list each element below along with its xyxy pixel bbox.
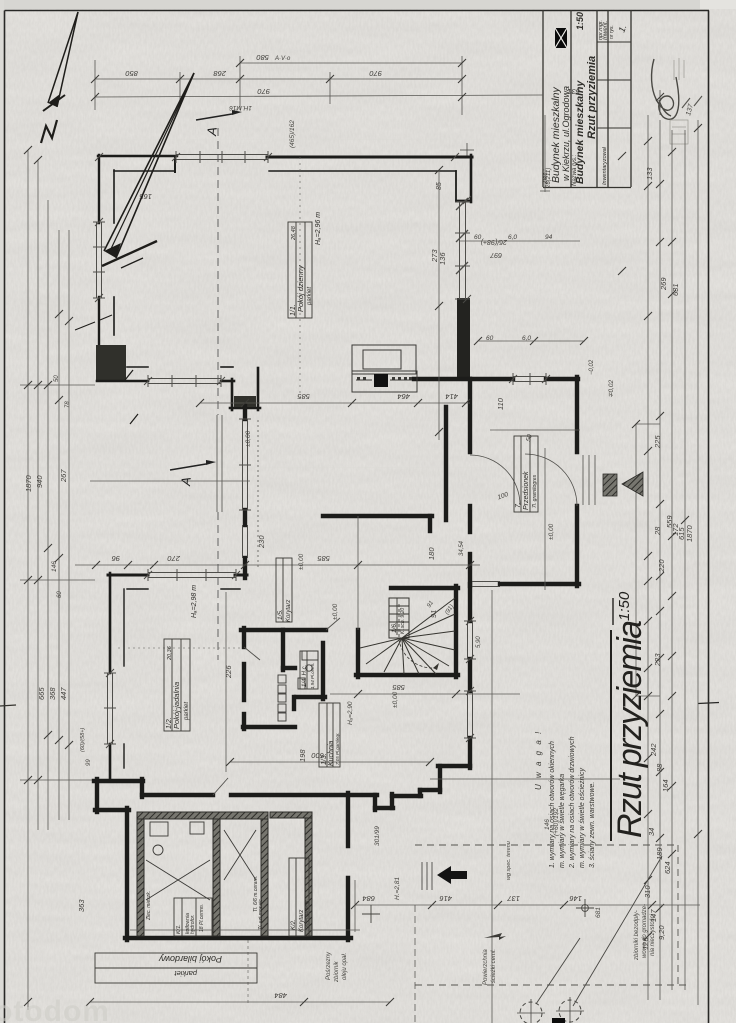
svg-text:310: 310: [643, 885, 652, 898]
svg-text:zbiorniki bezodpły-: zbiorniki bezodpły-: [634, 910, 640, 961]
svg-text:Korytarz: Korytarz: [286, 600, 292, 622]
svg-text:146: 146: [51, 561, 58, 572]
svg-text:585: 585: [317, 554, 330, 563]
svg-text:oleju opał.: oleju opał.: [342, 953, 348, 980]
svg-text:60: 60: [474, 234, 482, 241]
svg-text:180: 180: [427, 547, 436, 560]
svg-text:368: 368: [48, 687, 57, 700]
svg-text:ścieżki ceml.: ścieżki ceml.: [491, 949, 497, 983]
svg-text:684: 684: [362, 894, 375, 903]
svg-text:5,90: 5,90: [476, 636, 482, 648]
svg-text:Kuchnia: Kuchnia: [328, 741, 335, 766]
svg-text:Tl. 6/6 m.ceram.: Tl. 6/6 m.ceram.: [253, 876, 259, 912]
svg-text:U w a g a !: U w a g a !: [534, 730, 543, 790]
svg-text:wg spec. terenu: wg spec. terenu: [506, 841, 512, 880]
svg-text:−0,02: −0,02: [589, 359, 595, 375]
svg-text:580: 580: [256, 53, 269, 62]
svg-text:Pośrzezny: Pośrzezny: [326, 951, 332, 980]
svg-text:±0,00: ±0,00: [298, 553, 305, 570]
svg-text:1/5.: 1/5.: [277, 609, 284, 620]
svg-text:parkiet: parkiet: [174, 969, 198, 978]
svg-text:A·V·o: A·V·o: [274, 56, 291, 62]
svg-text:96: 96: [111, 554, 120, 563]
svg-text:18 Pl.cermn.: 18 Pl.cermn.: [199, 904, 205, 932]
svg-text:94: 94: [545, 234, 553, 241]
svg-text:6,0: 6,0: [508, 234, 517, 241]
svg-text:7,05 Pl.gamlegr.: 7,05 Pl.gamlegr.: [335, 732, 340, 765]
svg-text:K/1.: K/1.: [176, 924, 182, 934]
svg-text:H.=2,81: H.=2,81: [394, 877, 401, 900]
svg-text:970: 970: [257, 87, 270, 96]
svg-text:110: 110: [496, 397, 505, 410]
svg-text:164: 164: [661, 779, 670, 792]
svg-text:Rzut przyziemia: Rzut przyziemia: [611, 620, 649, 838]
svg-text:268: 268: [213, 69, 227, 78]
svg-text:6,0: 6,0: [522, 335, 531, 342]
svg-text:Zlec. mieszk.: Zlec. mieszk.: [146, 891, 152, 921]
svg-text:137: 137: [507, 894, 520, 903]
svg-text:3. ściany zewn. warstwowe.: 3. ściany zewn. warstwowe.: [589, 782, 596, 868]
svg-text:681: 681: [595, 907, 602, 918]
svg-text:Przedsionek: Przedsionek: [523, 471, 530, 510]
svg-text:∓0,02: ∓0,02: [608, 380, 615, 398]
svg-text:230: 230: [257, 535, 266, 549]
svg-text:m. wymiary w świetle węgarka: m. wymiary w świetle węgarka: [559, 774, 566, 868]
svg-text:1:50: 1:50: [575, 12, 585, 30]
svg-text:1H.M16: 1H.M16: [229, 104, 252, 111]
svg-text:225: 225: [653, 435, 662, 449]
svg-text:270: 270: [167, 554, 181, 563]
svg-text:631: 631: [567, 87, 580, 96]
svg-text:414: 414: [445, 392, 458, 401]
svg-text:447: 447: [59, 687, 68, 700]
svg-text:nia nieczystości: nia nieczystości: [650, 913, 656, 956]
svg-text:Pokój bilardowy: Pokój bilardowy: [158, 954, 222, 964]
svg-text:198: 198: [298, 749, 307, 762]
svg-text:Hₐ=2,96 m: Hₐ=2,96 m: [315, 212, 322, 245]
svg-text:34,54: 34,54: [459, 540, 465, 556]
svg-text:(60)/(58+): (60)/(58+): [80, 728, 86, 752]
svg-text:242: 242: [649, 743, 658, 757]
svg-text:(465)/162: (465)/162: [289, 120, 296, 148]
svg-text:hydrofor.: hydrofor.: [190, 914, 196, 934]
svg-text:28: 28: [653, 526, 662, 536]
svg-text:631: 631: [671, 283, 680, 296]
svg-text:970: 970: [369, 69, 382, 78]
svg-text:697: 697: [489, 251, 502, 258]
svg-text:363: 363: [77, 899, 86, 912]
svg-text:88: 88: [655, 763, 664, 772]
svg-text:otodom: otodom: [0, 995, 110, 1023]
svg-text:1/6.: 1/6.: [391, 622, 398, 633]
svg-text:26,48: 26,48: [291, 225, 297, 241]
svg-text:±0,00: ±0,00: [332, 603, 339, 620]
svg-text:20,36: 20,36: [167, 645, 173, 661]
svg-text:1870: 1870: [24, 474, 33, 492]
svg-text:85: 85: [436, 182, 443, 190]
svg-text:A: A: [204, 126, 220, 137]
svg-text:1870: 1870: [685, 524, 694, 542]
svg-text:±0,00: ±0,00: [245, 430, 252, 447]
svg-text:464: 464: [397, 392, 410, 401]
svg-text:416: 416: [439, 894, 452, 903]
svg-text:78: 78: [65, 401, 71, 408]
svg-text:940: 940: [35, 475, 44, 488]
svg-text:26(211): 26(211): [546, 168, 552, 189]
svg-text:91: 91: [429, 610, 438, 618]
svg-text:1,94 Pl.cerm.: 1,94 Pl.cerm.: [310, 662, 315, 689]
svg-text:zbiornik: zbiornik: [334, 960, 340, 983]
svg-text:267: 267: [59, 469, 68, 483]
svg-text:Hₐ=2,90: Hₐ=2,90: [347, 701, 354, 725]
svg-text:Kl.sch. 9,20: Kl.sch. 9,20: [400, 608, 406, 634]
svg-text:269: 269: [659, 277, 668, 291]
svg-text:parkiet: parkiet: [184, 702, 190, 721]
svg-text:7.: 7.: [515, 502, 522, 508]
svg-text:1:50: 1:50: [616, 591, 633, 621]
svg-text:2. wymiary na osiach otworów d: 2. wymiary na osiach otworów drzwiowych: [569, 736, 576, 869]
svg-text:26/(98+): 26/(98+): [481, 238, 508, 245]
svg-text:Pokój dzienny: Pokój dzienny: [296, 264, 305, 312]
svg-text:99: 99: [86, 759, 92, 766]
svg-text:189: 189: [655, 847, 664, 860]
svg-text:136: 136: [438, 252, 447, 265]
svg-text:A: A: [178, 476, 194, 487]
svg-text:Hₐ=2,98 m: Hₐ=2,98 m: [191, 585, 198, 618]
svg-text:1/3.: 1/3.: [321, 753, 328, 765]
svg-text:585: 585: [297, 392, 310, 401]
svg-text:665: 665: [37, 687, 46, 700]
svg-text:Pokój-jadalnia: Pokój-jadalnia: [172, 682, 181, 729]
svg-text:624: 624: [663, 861, 672, 874]
svg-text:parkiet: parkiet: [307, 287, 313, 306]
svg-text:133: 133: [645, 167, 654, 180]
svg-text:1/4. H.c.: 1/4. H.c.: [302, 665, 308, 687]
svg-text:Rzut przyziemia: Rzut przyziemia: [586, 56, 598, 139]
svg-text:Powierzchnia: Powierzchnia: [483, 949, 489, 985]
svg-text:60: 60: [486, 335, 494, 342]
svg-text:301/99: 301/99: [374, 826, 381, 846]
svg-text:60: 60: [57, 591, 63, 598]
svg-text:226: 226: [224, 665, 233, 679]
svg-text:K/2.: K/2.: [291, 919, 297, 930]
svg-text:w Kiekrzu, ul.Ogrodowa: w Kiekrzu, ul.Ogrodowa: [561, 86, 571, 181]
svg-text:9,20: 9,20: [657, 925, 666, 940]
svg-text:wowe do gromadze-: wowe do gromadze-: [642, 904, 648, 958]
svg-text:50: 50: [54, 375, 60, 382]
svg-text:±0,00: ±0,00: [392, 691, 399, 708]
svg-text:nr rys.: nr rys.: [609, 25, 615, 39]
svg-text:220: 220: [657, 559, 666, 573]
svg-text:484: 484: [274, 991, 287, 1000]
svg-text:850: 850: [125, 69, 138, 78]
svg-text:±0,00: ±0,00: [548, 523, 555, 540]
svg-text:146: 146: [569, 894, 582, 903]
svg-text:585: 585: [392, 683, 405, 692]
svg-text:Inwentaryzował: Inwentaryzował: [602, 146, 608, 185]
svg-text:1. wymiary na osiach otworów: 1. wymiary na osiach otworów okiennych: [549, 741, 556, 868]
svg-text:20 Pl.gamlegr.: 20 Pl.gamlegr.: [304, 899, 309, 929]
svg-text:223: 223: [653, 653, 662, 667]
svg-text:7l. gramitogres: 7l. gramitogres: [532, 474, 538, 508]
svg-text:m. wymiary w świetle ościeżnic: m. wymiary w świetle ościeżnicy: [579, 768, 586, 868]
